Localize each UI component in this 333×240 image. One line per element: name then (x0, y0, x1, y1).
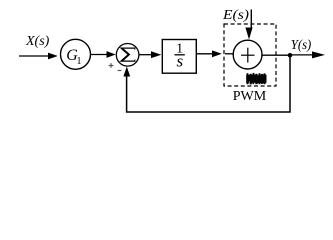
svg-text:E(s): E(s) (222, 8, 249, 23)
svg-text:Y(s): Y(s) (291, 38, 312, 53)
svg-text:s: s (176, 52, 183, 71)
svg-text:1: 1 (77, 56, 82, 67)
svg-text:PWM: PWM (233, 89, 267, 104)
svg-text:X(s): X(s) (25, 34, 50, 49)
